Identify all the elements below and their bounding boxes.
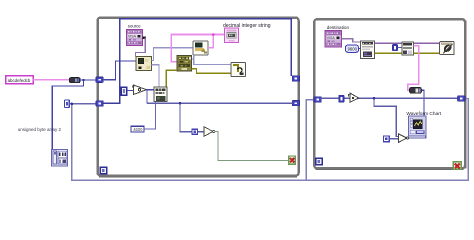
wire: blue conversion down to chart: [421, 90, 424, 116]
wire stub black from source: [143, 37, 146, 39]
numeric constant 9600: [346, 45, 359, 52]
constant n box: [392, 45, 402, 51]
string control abcdefedcb: [6, 76, 34, 84]
node: build/stack string icon: [177, 56, 192, 72]
indicator: unsigned byte array 2 icon: [52, 149, 68, 166]
wire: pink scan output to indicator and stack: [171, 35, 224, 62]
svg-text:9600: 9600: [348, 47, 358, 52]
node: VISA write: [402, 42, 413, 55]
iteration terminal i right loop: [316, 158, 322, 164]
node: string-to-byte conversion 2: [410, 88, 422, 94]
node: VISA configure serial port: [361, 41, 375, 59]
control: source VISA resource: [126, 29, 142, 45]
numeric constant 4600: [131, 126, 144, 132]
wire: triangle out to format box; branch down to long wire: [147, 89, 155, 91]
wire: lavender beige to scan icon: [152, 48, 194, 61]
wire: comparator to chart bottom: [409, 134, 426, 139]
wire: olive stack to typecast: [192, 69, 232, 74]
svg-text:abcdefedcb: abcdefedcb: [8, 78, 31, 83]
wire: to comparator: [198, 131, 205, 133]
wire: olive config to write: [375, 52, 402, 54]
wire: violet config to write: [375, 42, 402, 44]
terminal: unsigned byte array 2: [65, 100, 70, 108]
node: comparator triangle right: [399, 134, 409, 143]
node: string-to-byte-array conversion: [70, 78, 81, 83]
node: beige VISA icon (property node): [136, 57, 152, 71]
wire: branch down to comparator right: [374, 98, 399, 136]
wire: olive write to close: [413, 52, 439, 54]
node: typecast icon: [231, 63, 246, 77]
indicator: waveform chart icon: [409, 116, 427, 136]
wire: pink string to conversion: [33, 79, 70, 81]
wire: lavender scan bottom to typecast: [194, 55, 231, 64]
wire: main right loop: [320, 97, 457, 99]
svg-text:VISA: VISA: [128, 35, 137, 39]
wire A: tunnel T1 to beige icon: [103, 61, 136, 80]
wire: boolean to stop terminal: [215, 132, 289, 161]
wire: lavender beige to format box top: [152, 65, 160, 87]
node: increment triangle right loop: [349, 93, 359, 102]
wire: violet source to beige icon: [136, 38, 146, 57]
wire: unsigned byte array long route bottom: [72, 98, 469, 180]
tunnel T3 right border y78: [292, 76, 299, 81]
node: VISA close: [440, 42, 455, 55]
svg-text:destination: destination: [327, 25, 350, 30]
iteration terminal i left loop: [100, 167, 107, 174]
wire: pink write down to conversion: [408, 46, 419, 91]
while loop R border: [314, 19, 465, 168]
node: coerce box: [339, 95, 344, 102]
wire: violet write to close: [413, 42, 439, 44]
wire: 9600 to config: [359, 47, 361, 49]
svg-text:source: source: [128, 24, 142, 29]
wire: to comparator right: [389, 138, 398, 140]
wire: blue out of conversion to tunnel + down to array indicator: [52, 80, 96, 150]
stop terminal right loop: [453, 162, 461, 169]
wire: long wire to tunnel T4: [147, 102, 293, 104]
tunnel T4 right border y103: [292, 100, 299, 105]
node: increment triangle: [132, 85, 146, 95]
control: destination VISA resource: [325, 31, 342, 47]
stop terminal left loop: [289, 156, 296, 164]
wire B: big dark blue route around top: [103, 19, 292, 104]
indicator: decimal integer string: [225, 28, 239, 43]
constant box right: [384, 136, 390, 142]
wire: violet destination to config: [342, 39, 361, 42]
svg-text:unsigned byte array 2: unsigned byte array 2: [18, 127, 62, 132]
wire: terminal to tunnel T2: [69, 103, 96, 105]
while loop L border: [98, 18, 299, 176]
wire: olive format box to stack: [166, 70, 177, 87]
svg-text:VISA: VISA: [327, 36, 336, 40]
wire: 4600 to format box bottom: [144, 102, 155, 130]
constant box small: [192, 129, 198, 134]
wire: i to increment triangle: [127, 89, 134, 91]
iteration terminal i (inner): [121, 87, 127, 95]
svg-text:4600: 4600: [133, 127, 143, 132]
node: comparator triangle: [204, 127, 215, 137]
tunnel T1 left border y80: [96, 77, 103, 82]
tunnel T2 left border y103.5: [96, 101, 103, 106]
tunnel T6 right loop right border: [458, 96, 465, 101]
node: format into string box: [154, 87, 167, 102]
tunnel T5 right loop left border: [314, 97, 321, 102]
node: scan-from-string icon: [193, 41, 208, 55]
wire: branch down to comparator: [180, 103, 192, 132]
